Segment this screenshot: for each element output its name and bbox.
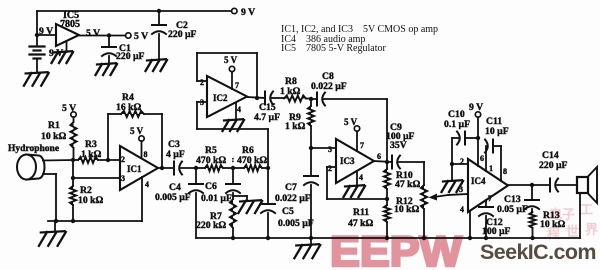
speaker <box>577 177 588 193</box>
svg-text:35V: 35V <box>390 140 407 151</box>
svg-text:8: 8 <box>503 167 507 176</box>
resistor R13 10k <box>529 212 535 228</box>
svg-text:1 kΩ: 1 kΩ <box>81 149 102 160</box>
svg-text:4: 4 <box>359 173 363 182</box>
op-amp IC4 386 <box>468 159 508 212</box>
capacitor C12 100uF <box>485 200 487 207</box>
capacitor C3 4uF <box>173 162 175 175</box>
wire IC1 pin4 <box>141 177 143 221</box>
svg-text:EEPW: EEPW <box>330 228 462 270</box>
svg-text:2: 2 <box>200 78 204 87</box>
ground battery <box>36 59 38 73</box>
svg-text:10 kΩ: 10 kΩ <box>78 195 103 206</box>
resistor R5 470k <box>196 167 205 169</box>
wire node to pin3 <box>72 160 74 178</box>
op-amp IC3 <box>336 139 374 183</box>
capacitor C4 0.005uF <box>195 168 197 184</box>
node R3 feedback <box>106 158 110 162</box>
capacitor C14 220uF <box>549 179 551 192</box>
capacitor C7 0.022uF <box>310 148 312 176</box>
svg-text:0.05 µF: 0.05 µF <box>497 204 528 215</box>
wire IC2 pin3 loop <box>197 101 207 103</box>
resistor R4 16k feedback <box>107 114 109 160</box>
resistor R2 10k <box>70 186 76 205</box>
svg-text:5 V: 5 V <box>86 28 100 39</box>
terminal 5V <box>126 33 131 38</box>
svg-text:5 V: 5 V <box>62 103 76 114</box>
ground rail main <box>196 237 580 239</box>
svg-text:6: 6 <box>480 154 484 163</box>
svg-text:5 V: 5 V <box>134 31 148 42</box>
node C2 <box>157 9 161 13</box>
resistor R10 47k <box>386 162 388 169</box>
svg-text:4: 4 <box>237 105 241 114</box>
wire 9V top rail <box>37 10 234 12</box>
svg-text:0.005 µF: 0.005 µF <box>278 218 314 229</box>
capacitor C1 220uF <box>108 36 110 48</box>
potentiometer R12 10k <box>423 162 425 185</box>
svg-text:2: 2 <box>328 164 332 173</box>
wire IC1 output <box>158 167 174 169</box>
svg-text:9 V: 9 V <box>469 102 483 113</box>
svg-text:4.7 µF: 4.7 µF <box>254 112 280 123</box>
ground C2 <box>147 59 166 60</box>
node IC3 out <box>385 160 389 164</box>
svg-text:0.022 µF: 0.022 µF <box>275 193 311 204</box>
capacitor C13 0.05uF <box>531 185 533 200</box>
ground IC5 <box>66 42 68 53</box>
svg-text:220 kΩ: 220 kΩ <box>196 220 226 231</box>
svg-text:1: 1 <box>489 164 493 173</box>
svg-text:220 µF: 220 µF <box>168 29 197 40</box>
terminal 5V R1 <box>71 112 76 117</box>
svg-text:IC1: IC1 <box>127 164 142 174</box>
capacitor C8 0.022uF feedback <box>311 98 317 100</box>
node 9V C10 <box>476 136 480 140</box>
node IC1 output <box>160 166 164 170</box>
node R8 out <box>309 97 313 101</box>
svg-text:7: 7 <box>488 194 492 203</box>
svg-text:C6: C6 <box>205 181 217 192</box>
wire IC4 pin2 <box>452 163 468 165</box>
wire hydrophone bottom <box>43 173 56 175</box>
node output C13 <box>530 183 534 187</box>
svg-text:SeekIC.com: SeekIC.com <box>480 240 596 264</box>
svg-text:5 V: 5 V <box>224 55 238 65</box>
svg-text:47 kΩ: 47 kΩ <box>395 179 420 190</box>
svg-text::: : <box>232 154 235 164</box>
watermark stamp <box>547 202 598 241</box>
regulator IC5 7805 <box>56 24 79 46</box>
node input <box>71 158 75 162</box>
wire 9V to pin6 <box>477 117 479 166</box>
ground IC3 pin4 <box>356 171 358 185</box>
svg-text:10 kΩ: 10 kΩ <box>41 131 66 142</box>
svg-text:R1: R1 <box>48 120 60 131</box>
capacitor C2 220uF <box>158 11 160 25</box>
legend text <box>281 24 438 54</box>
wire IC2 feedback loop <box>197 80 207 82</box>
svg-text:3: 3 <box>328 145 332 154</box>
resistor R3 1k <box>73 159 78 161</box>
op-amp IC1 <box>120 146 158 190</box>
ground R7 tap <box>233 195 247 197</box>
resistor R1 10k <box>73 117 75 122</box>
node battery input <box>35 33 39 37</box>
ground IC4 pin2 <box>443 180 462 181</box>
svg-text:7: 7 <box>235 81 239 90</box>
node pin3 <box>71 176 75 180</box>
svg-text:IC5 7805 5-V Regulator: IC5 7805 5-V Regulator <box>281 43 386 54</box>
svg-text:6: 6 <box>377 152 381 161</box>
svg-text:世: 世 <box>566 224 579 239</box>
wiper R12 to IC4 pin3 <box>448 194 468 195</box>
capacitor C11 10uF <box>485 146 487 171</box>
terminal 9V <box>232 8 237 13</box>
ground main rail <box>310 238 312 244</box>
op-amp IC2 <box>207 76 247 117</box>
capacitor C10 0.1uF <box>452 137 459 139</box>
svg-text:R11: R11 <box>353 207 369 218</box>
svg-text:5 V: 5 V <box>130 126 144 136</box>
svg-text:16 kΩ: 16 kΩ <box>116 102 141 113</box>
capacitor C5 0.005uF <box>267 168 269 204</box>
node R10 R11 <box>385 197 389 201</box>
resistor R7 220k <box>230 199 236 228</box>
svg-text:0.022 µF: 0.022 µF <box>311 81 347 92</box>
wire to IC3 pin3 <box>311 147 336 149</box>
resistor R9 1k <box>310 99 312 106</box>
wire IC4 pin4 <box>469 211 471 238</box>
svg-text:10 kΩ: 10 kΩ <box>540 219 565 230</box>
resistor R6 470k <box>244 165 262 171</box>
capacitor C9 100uF 35V <box>391 156 393 169</box>
wire IC5 output 5V <box>79 35 126 37</box>
ground IC2 pin4 <box>235 103 237 119</box>
node C1 <box>107 33 111 37</box>
svg-text:220 µF: 220 µF <box>116 51 145 62</box>
wire IC3 pin2 loop <box>327 166 336 168</box>
svg-text:470 kΩ: 470 kΩ <box>237 155 267 166</box>
svg-text:470 kΩ: 470 kΩ <box>196 155 226 166</box>
capacitor C6 0.01uF <box>232 168 234 184</box>
svg-text:IC4: IC4 <box>471 176 486 186</box>
svg-text:Hydrophone: Hydrophone <box>8 144 59 154</box>
svg-text:47 kΩ: 47 kΩ <box>348 218 373 229</box>
svg-text:220 µF: 220 µF <box>539 160 568 171</box>
svg-text:7: 7 <box>360 141 364 150</box>
svg-text:10 µF: 10 µF <box>485 126 509 137</box>
svg-text:4: 4 <box>460 205 464 214</box>
wire IC2 output <box>247 97 265 98</box>
ground C1 <box>97 63 116 64</box>
svg-text:1 kΩ: 1 kΩ <box>280 86 301 97</box>
capacitor C15 4.7uF <box>264 92 266 105</box>
svg-text:100 µF: 100 µF <box>482 226 511 237</box>
svg-text:0.005 µF: 0.005 µF <box>155 192 191 203</box>
svg-text:C5: C5 <box>282 206 294 217</box>
node IC2 output <box>255 96 259 100</box>
wire to IC1 pin3 <box>73 177 120 179</box>
wire C10 to ground <box>451 138 453 180</box>
node pin2 <box>450 162 454 166</box>
svg-text:9 V: 9 V <box>39 26 53 37</box>
svg-text:C7: C7 <box>285 182 297 193</box>
resistor R8 1k <box>284 95 306 101</box>
svg-text:8: 8 <box>144 150 148 159</box>
svg-text:界: 界 <box>585 222 598 237</box>
svg-text:7805: 7805 <box>60 19 80 30</box>
node R5 R6 <box>231 166 235 170</box>
node IC3 pin3 <box>309 146 313 150</box>
svg-text:2: 2 <box>121 155 125 164</box>
node C3 out <box>194 166 198 170</box>
svg-text:4: 4 <box>145 180 149 189</box>
wire IC4 output <box>508 184 550 186</box>
svg-text:10 kΩ: 10 kΩ <box>394 204 419 215</box>
wire IC3 output <box>374 161 392 162</box>
svg-text:0.1 µF: 0.1 µF <box>444 119 470 130</box>
svg-text:3: 3 <box>121 174 125 183</box>
svg-text:4 µF: 4 µF <box>166 149 185 160</box>
resistor R11 47k <box>386 199 388 205</box>
svg-text:9 V: 9 V <box>241 7 255 18</box>
svg-text:工: 工 <box>580 202 593 217</box>
svg-text:IC3: IC3 <box>340 156 355 166</box>
svg-text:1 kΩ: 1 kΩ <box>285 121 306 132</box>
wire hydrophone top <box>43 159 73 162</box>
node R6 out <box>266 166 270 170</box>
ground rail input <box>48 220 142 222</box>
battery B1 9V <box>36 35 38 45</box>
svg-text:0.01 µF: 0.01 µF <box>201 193 232 204</box>
svg-text:IC2: IC2 <box>213 93 228 103</box>
wire speaker to ground <box>579 193 581 238</box>
